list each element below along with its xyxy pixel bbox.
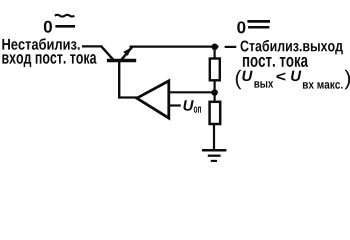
transistor Q1 base bar [107, 59, 136, 62]
label unstabilized input line2 [2, 54, 96, 67]
wire base lead vertical [118, 61, 120, 98]
node A junction dot [211, 44, 218, 51]
wire op-amp output to base [118, 96, 137, 98]
transistor Q1 emitter lead [121, 47, 132, 61]
node B junction dot [211, 89, 218, 96]
label formula Uvyh < Uvh max [236, 70, 242, 90]
label 0 output [237, 21, 245, 33]
label stabilized output line1 [241, 40, 343, 54]
wire op-amp reference input [170, 104, 181, 106]
wire R1 to node B [214, 81, 216, 101]
label unstabilized input line1 [2, 38, 79, 50]
wire output horizontal [130, 45, 219, 47]
smooth DC symbol [247, 20, 270, 23]
resistor R1 [210, 59, 220, 81]
label 0 input [44, 21, 52, 33]
resistor R2 [210, 102, 221, 124]
label stabilized output line2 [243, 57, 308, 67]
wire stub to output label [225, 46, 237, 48]
op-amp U1 triangle [137, 81, 169, 118]
transistor Q1 emitter arrowhead [123, 48, 131, 56]
ground [202, 149, 226, 152]
wire node A vertical top [214, 47, 216, 58]
wire op-amp noninverting input [170, 91, 215, 93]
transistor Q1 collector lead [101, 46, 113, 59]
wire R2 to ground [213, 125, 215, 150]
label Uop reference [183, 100, 193, 110]
pulsating DC symbol [55, 15, 75, 17]
wire input horizontal [82, 45, 102, 47]
